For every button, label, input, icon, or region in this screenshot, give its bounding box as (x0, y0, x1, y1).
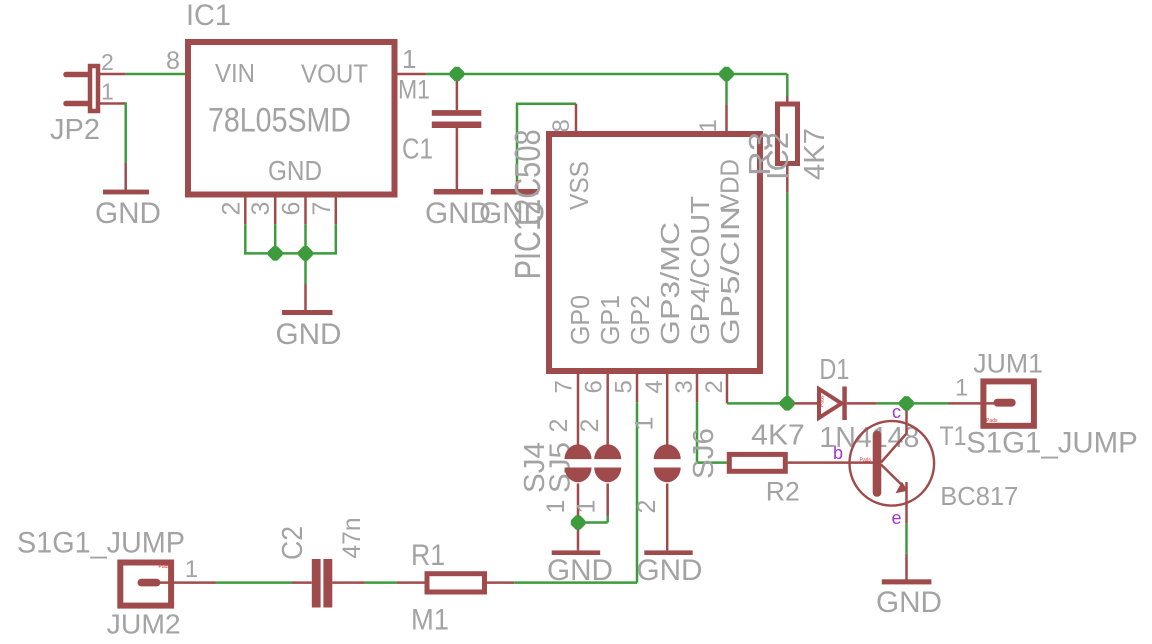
svg-text:GND: GND (268, 155, 322, 186)
svg-text:S1G1_JUMP: S1G1_JUMP (966, 427, 1138, 460)
svg-text:Pads: Pads (820, 395, 826, 407)
svg-text:R2: R2 (766, 477, 800, 507)
wire net GP5 to D1 (727, 402, 787, 405)
pin IC2 pin8 stub (575, 104, 578, 134)
svg-text:4K7: 4K7 (799, 128, 831, 180)
svg-text:2: 2 (217, 202, 245, 216)
ground symbol JP2 (103, 190, 149, 195)
wire R1 stub left (397, 581, 425, 584)
svg-text:1: 1 (631, 417, 659, 431)
svg-text:Pads: Pads (860, 458, 872, 464)
wire top net VOUT to R3 (426, 73, 787, 76)
IC2 PIC12C508 body (549, 134, 760, 371)
wire R1 stub right (487, 581, 514, 584)
svg-text:JP2: JP2 (50, 114, 100, 146)
svg-text:GP5/CIN: GP5/CIN (715, 206, 745, 345)
svg-text:M1: M1 (398, 75, 430, 105)
svg-text:GND: GND (95, 197, 161, 230)
solder jumper SJ4 pads (565, 444, 592, 482)
wire JP2 pin2 stub (98, 73, 126, 76)
svg-text:VIN: VIN (215, 58, 255, 88)
wire net JUM2 to C2 (216, 581, 293, 584)
svg-text:c: c (892, 402, 901, 422)
wire net D1 to T1 collector (877, 402, 907, 405)
svg-text:2: 2 (101, 49, 114, 75)
junction node VOUT/C1 (448, 65, 467, 84)
svg-text:GND: GND (876, 586, 942, 619)
svg-text:8: 8 (548, 119, 575, 132)
wire net C2 to R1 (365, 581, 397, 584)
svg-text:GND: GND (276, 318, 342, 351)
svg-text:1: 1 (695, 119, 722, 132)
svg-text:GP3/MC: GP3/MC (655, 222, 685, 345)
junction node GP5/D1 (778, 394, 797, 413)
resistor R2 4K7 (729, 454, 785, 471)
wire gnd stub (124, 163, 127, 190)
svg-text:VDD: VDD (715, 159, 745, 210)
wire gnd stub (905, 554, 908, 580)
solder jumper SJ5 pads (594, 444, 621, 482)
wire net JP2 pin1 down (124, 102, 127, 163)
wire R2 to T1 base (788, 461, 873, 464)
wire gnd stub (516, 180, 519, 189)
svg-text:D1: D1 (819, 354, 849, 386)
svg-text:GP0: GP0 (565, 295, 595, 345)
wire net T1 emitter (905, 523, 908, 554)
wire gnd stub (304, 284, 307, 311)
IC1 78L05SMD body (188, 42, 395, 195)
IC1 bottom pin stubs (245, 198, 335, 225)
junction node SJ4 gnd (569, 513, 588, 532)
svg-text:T1: T1 (940, 421, 967, 451)
svg-text:47n: 47n (338, 518, 366, 559)
wire JP2 pin1 stub (98, 102, 126, 105)
svg-text:1: 1 (542, 500, 570, 514)
svg-text:BC817: BC817 (940, 481, 1018, 511)
capacitor C1 (432, 74, 482, 190)
wire net SJ5 to junction (578, 516, 608, 523)
ground symbol T1 emitter (882, 579, 932, 584)
svg-text:1: 1 (573, 500, 601, 514)
resistor R3 4K7 vertical (778, 96, 798, 193)
svg-text:S1G1_JUMP: S1G1_JUMP (17, 527, 185, 560)
ground symbol SJ6 (644, 550, 692, 555)
svg-text:GND: GND (547, 554, 613, 587)
svg-text:JUM1: JUM1 (973, 348, 1043, 378)
connector JUM2 (120, 563, 215, 606)
svg-text:7: 7 (551, 380, 578, 393)
wire SJ5 bottom stub (606, 484, 609, 517)
svg-text:JUM2: JUM2 (107, 609, 181, 640)
svg-text:4: 4 (641, 380, 668, 393)
svg-text:2: 2 (701, 380, 728, 393)
svg-text:2: 2 (633, 500, 661, 514)
svg-text:Pads: Pads (159, 564, 171, 570)
svg-text:GP1: GP1 (595, 295, 625, 345)
svg-text:1: 1 (955, 375, 968, 402)
svg-text:SJ6: SJ6 (688, 428, 720, 479)
connector JP2 (66, 66, 98, 111)
wire C2 stub right (332, 581, 365, 584)
svg-text:2: 2 (545, 419, 573, 433)
svg-text:4K7: 4K7 (751, 420, 805, 452)
pin IC2 pin1 stub (725, 104, 728, 134)
wire SJ6 bottom to gnd (666, 484, 669, 551)
wire net VDD (725, 74, 728, 104)
svg-text:6: 6 (278, 202, 306, 216)
wire net R3 down (786, 193, 789, 404)
svg-text:3: 3 (671, 380, 698, 393)
wire C2 stub left (292, 581, 312, 584)
solder jumper SJ6 pads (654, 444, 681, 482)
junction node IC1 gnd pin3 (266, 244, 285, 263)
junction node IC1 gnd pin6 (296, 244, 315, 263)
wire IC1 gnd net (244, 224, 337, 284)
svg-text:7: 7 (308, 202, 336, 216)
svg-text:GP4/COUT: GP4/COUT (685, 196, 715, 345)
svg-text:C2: C2 (277, 526, 309, 560)
svg-text:5: 5 (611, 380, 638, 393)
svg-text:3: 3 (247, 202, 275, 216)
svg-text:2: 2 (576, 419, 604, 433)
svg-text:M1: M1 (411, 604, 449, 637)
ground symbol VSS (491, 189, 539, 195)
wire net IC2 VSS to gnd (517, 103, 576, 181)
ground symbol under IC1 (282, 310, 333, 315)
svg-text:VSS: VSS (564, 161, 594, 210)
wire IC1 VOUT stub (398, 73, 427, 76)
junction node VDD (717, 65, 736, 84)
svg-text:78L05SMD: 78L05SMD (208, 102, 351, 140)
diode D1 1N4148 (794, 387, 877, 421)
svg-text:IC2: IC2 (760, 132, 795, 180)
capacitor C2 47n (312, 559, 333, 608)
wire SJ4 bottom to gnd (577, 484, 580, 551)
svg-text:e: e (892, 508, 902, 528)
svg-text:PIC12C508: PIC12C508 (507, 129, 548, 279)
svg-text:1: 1 (101, 79, 114, 105)
wire net GP3 to R2 (697, 402, 727, 462)
svg-text:R1: R1 (411, 539, 445, 572)
svg-text:8: 8 (166, 47, 180, 75)
wire net T1 collector to JUM1 (907, 402, 949, 405)
svg-text:1: 1 (402, 44, 416, 74)
IC2 bottom pin stubs (578, 371, 727, 445)
svg-text:1: 1 (185, 556, 198, 583)
junction node collector (897, 394, 916, 413)
wire net JP2 to IC1 VIN (126, 73, 188, 76)
svg-text:C1: C1 (402, 134, 433, 166)
svg-text:Pads: Pads (986, 418, 998, 424)
svg-text:6: 6 (581, 380, 608, 393)
wire net GP2 to R1 (514, 402, 637, 582)
svg-text:VOUT: VOUT (301, 59, 368, 89)
transistor T1 BC817 (850, 403, 935, 523)
connector JUM1 (949, 381, 1034, 425)
resistor R1 M1 (427, 574, 485, 592)
svg-text:IC1: IC1 (186, 0, 231, 32)
ground symbol SJ4 (552, 550, 601, 555)
svg-text:GND: GND (637, 554, 703, 587)
ground symbol under C1 (434, 189, 483, 195)
svg-text:GP2: GP2 (625, 295, 655, 345)
svg-text:b: b (833, 443, 843, 463)
